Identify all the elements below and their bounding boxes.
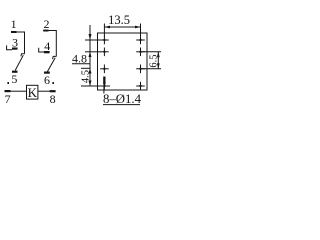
extension row3 left — [81, 67, 90, 69]
svg-text:6.5: 6.5 — [148, 54, 159, 67]
dimension 4.5 line — [89, 64, 92, 86]
wire pin1 to NC contact 1 — [17, 32, 25, 54]
svg-text:3: 3 — [12, 36, 18, 50]
svg-text:4.8: 4.8 — [72, 51, 87, 65]
svg-text:4.5: 4.5 — [80, 70, 91, 83]
hole callout leader arrow — [103, 77, 106, 94]
dimension 4.8 line — [89, 25, 92, 64]
svg-text:8: 8 — [50, 92, 56, 106]
hole pin4 — [136, 48, 145, 57]
relay body outline — [98, 33, 148, 90]
extension row3 right — [141, 68, 162, 70]
hole pin6 — [136, 65, 145, 74]
hole pin2 — [136, 36, 145, 45]
hole pin5 — [100, 65, 109, 74]
extension row2 left — [85, 51, 101, 53]
pin 1 pad — [11, 31, 17, 33]
hole pin3 — [100, 48, 109, 57]
pin 4 pad — [44, 51, 50, 53]
coil K1 box — [27, 85, 38, 99]
svg-text:2: 2 — [44, 17, 50, 31]
stub above pin 8 — [52, 82, 54, 84]
hole pin7 — [100, 82, 109, 91]
movable arm pole 1 — [15, 55, 23, 70]
dimension 13.5 line — [104, 26, 140, 29]
extension line right 13.5 — [140, 24, 142, 37]
svg-text:8–Ø1.4: 8–Ø1.4 — [103, 92, 142, 106]
pin 8 pad — [50, 90, 56, 92]
svg-text:6: 6 — [44, 73, 50, 87]
svg-text:1: 1 — [11, 17, 17, 31]
stub above pin 7 — [7, 82, 9, 84]
pin 2 pad — [43, 30, 48, 32]
extension line left 13.5 — [103, 24, 105, 37]
dimension 6.5 line — [157, 52, 160, 69]
svg-text:13.5: 13.5 — [108, 13, 130, 27]
hole pin1 — [100, 36, 109, 45]
pin 6 pad — [44, 72, 50, 74]
coil wire right — [38, 90, 50, 92]
movable arm pole 2 — [47, 58, 55, 72]
svg-text:5: 5 — [11, 72, 17, 86]
wire pin2 to NC contact 2 — [49, 31, 57, 57]
extension row2 right — [141, 51, 162, 53]
svg-text:K: K — [28, 85, 38, 100]
NC fixed contact 2 — [53, 56, 57, 59]
NC fixed contact 1 — [21, 54, 25, 57]
svg-text:7: 7 — [5, 92, 11, 106]
hole callout underline — [103, 104, 140, 106]
pin 3 pad — [12, 48, 18, 50]
extension row4 left — [81, 85, 110, 87]
pin 7 pad — [5, 90, 11, 92]
dimension 4.8 shelf — [72, 63, 90, 65]
pin 5 pad — [12, 71, 18, 73]
svg-text:4: 4 — [44, 39, 50, 53]
NO hook contact 3 — [7, 45, 13, 49]
NO hook contact 4 — [39, 48, 45, 52]
extension row1 left — [85, 39, 101, 41]
hole pin8 — [136, 82, 145, 91]
coil wire left — [11, 90, 27, 92]
